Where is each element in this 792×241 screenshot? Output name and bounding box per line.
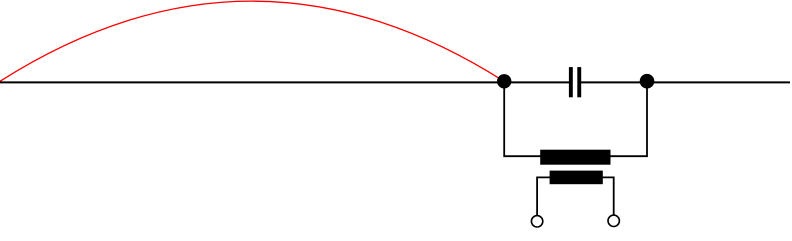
transformer T1 secondary winding [550,171,603,185]
wire: right antenna arm [647,81,790,83]
current distribution curve (red half-wave) [0,1,504,81]
wire: node A down to transformer primary [504,86,541,156]
wire: left antenna arm [0,81,504,83]
capacitor C1 [569,67,581,97]
node A (junction dot) [497,74,511,88]
node B (junction dot) [640,74,655,89]
wire: node A to capacitor C1 [504,81,571,83]
wire: secondary left lead [537,177,550,215]
terminal J2 (right open circle) [608,215,619,226]
terminal J1 (left open circle) [531,216,542,227]
wire: node B down to transformer primary [610,86,647,156]
transformer T1 primary winding [540,150,610,165]
wire: capacitor C1 to node B [580,81,648,83]
wire: secondary right lead [602,177,614,215]
